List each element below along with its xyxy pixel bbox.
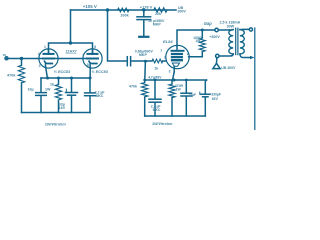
node cathode V1a [46,77,49,80]
resistor R7 100R screen [189,30,206,57]
svg-text:470k: 470k [7,74,16,78]
input terminal [5,57,8,60]
wire coupling feed riser [108,10,128,61]
transformer T1 output [229,28,245,54]
wire right edge vertical [254,28,256,130]
svg-text:7: 7 [82,54,84,58]
capacitor C4 2.2uF MKC [85,78,96,113]
node C3 top [70,77,73,80]
svg-text:1W: 1W [45,87,51,91]
terminal primary top [215,28,218,31]
arrow secondary output [250,56,254,60]
wire ground rail right block [145,115,206,117]
svg-text:1W: 1W [176,87,182,91]
tube V1a triode 1/2 ECC83 [39,49,58,68]
resistor R8 470R cathode [169,80,175,116]
capacitor C5 0.68u/630V coupling [127,57,145,66]
svg-text:½ ECC83: ½ ECC83 [91,70,108,74]
primary winding [229,30,233,54]
resistor R6 470k grid leak EL84 [142,61,148,116]
svg-text:16V: 16V [59,106,66,110]
capacitor C2 10u/350V filter [137,10,151,36]
svg-text:1W/Vitrohm: 1W/Vitrohm [152,122,173,126]
terminal secondary top [249,28,252,31]
resistor R1 470k grid leak [18,59,24,113]
svg-text:+105 V: +105 V [83,4,97,9]
node bus-gridleak [143,79,146,82]
svg-text:3: 3 [39,64,41,68]
wire EL84 cathode lead [173,72,175,80]
svg-text:22k: 22k [155,12,161,16]
wire ground rail left block [22,112,91,114]
svg-text:½ ECC83: ½ ECC83 [54,70,71,74]
wire junction to stopper [145,60,152,62]
wire anode rail of triodes [49,43,93,54]
wire cathode bus left [41,77,90,79]
node R4 top [57,77,60,80]
power supply triangle UB 300V [213,63,220,68]
wire terminal to supply triangle [216,58,218,64]
svg-text:470k: 470k [129,84,137,88]
svg-text:1k: 1k [50,82,54,86]
svg-text:6: 6 [94,45,96,49]
svg-text:15µF: 15µF [188,93,196,97]
tube V2 EL84 pentode [166,45,189,72]
node tube2 cathode [89,77,92,80]
wire stopper to grid [163,60,166,62]
svg-text:4,7µ/63V: 4,7µ/63V [148,75,162,79]
wire input to grid [8,58,44,60]
svg-text:7: 7 [160,49,162,53]
svg-text:1: 1 [44,45,46,49]
svg-text:330µF: 330µF [211,92,221,96]
svg-text:1W/Vitrohm: 1W/Vitrohm [45,122,67,126]
svg-text:100k: 100k [120,14,129,18]
svg-text:10µ: 10µ [28,88,34,92]
svg-text:UB 300V: UB 300V [221,66,236,70]
node EL84 cathode [173,79,176,82]
terminal primary bottom [216,54,219,57]
resistor R5 1k grid stopper [152,59,163,63]
svg-text:2: 2 [164,55,166,59]
svg-text:EL84: EL84 [163,39,173,44]
svg-text:12AX7: 12AX7 [66,49,77,53]
svg-text:3: 3 [169,69,171,73]
secondary winding [240,30,244,54]
capacitor C1 10u cathode bypass [36,78,47,113]
capacitor C8 330uF/63V [200,80,210,116]
capacitor C6 2.2uF MKC [149,80,161,116]
node screen resistor tap [201,29,204,32]
wire anode feed riser [70,10,72,43]
capacitor C7 15uF [181,80,192,116]
resistor R3 22k dropper [154,8,167,13]
resistor R2 100k plate load [118,8,130,12]
node input junction [20,57,23,60]
resistor R4 cathode bias [55,78,61,113]
wire primary bottom to supply terminal [219,54,233,56]
svg-text:MKP: MKP [139,53,147,57]
node anode rail centre [69,41,72,44]
wire grid interconnect [54,58,88,60]
svg-text:1W: 1W [195,39,201,43]
svg-text:Gap: Gap [204,21,213,26]
node anode rail top junction [106,8,109,11]
svg-text:MKP: MKP [153,22,162,26]
wire anode to primary top [230,29,234,31]
capacitor C3 33u/16V electrolytic [66,78,78,113]
svg-text:2: 2 [38,52,40,56]
wire secondary top lead [240,28,249,30]
node filter cap junction [142,8,145,11]
node grid junction EL84 [144,60,147,63]
wire EL84 anode riser [177,30,230,46]
wire cathode bus right [145,79,207,81]
svg-text:MKC: MKC [96,94,104,98]
ground bar under C2 [139,36,148,38]
svg-text:63V: 63V [212,97,219,101]
wire cathode lead V1b [89,67,91,78]
svg-text:+300V: +300V [209,35,220,39]
svg-text:1k: 1k [154,66,158,70]
node C7 top [185,79,188,82]
svg-text:MKC: MKC [153,108,161,112]
wire cathode lead V1a [46,67,48,78]
wire secondary bottom lead [240,54,250,58]
core lines [236,28,238,54]
svg-text:8: 8 [87,63,89,67]
svg-text:30W: 30W [227,25,235,29]
wire top supply rail y=10 [71,9,177,11]
svg-text:300V: 300V [178,10,187,14]
node C6 top [154,79,157,82]
svg-text:IN: IN [3,53,6,57]
tube V1b triode 1/2 ECC83 [83,49,102,68]
svg-text:+178 V: +178 V [140,5,153,10]
